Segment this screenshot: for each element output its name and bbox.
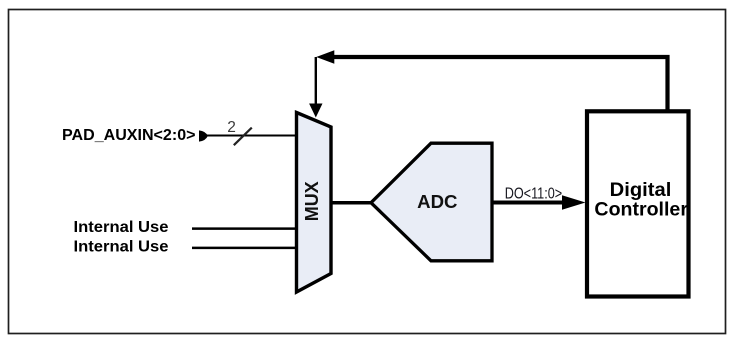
svg-text:Controller: Controller — [594, 200, 688, 221]
svg-text:2: 2 — [227, 119, 236, 136]
svg-text:ADC: ADC — [417, 191, 457, 212]
svg-text:Digital: Digital — [610, 180, 672, 201]
svg-text:Internal Use: Internal Use — [74, 239, 169, 256]
svg-text:Internal Use: Internal Use — [74, 219, 169, 236]
svg-text:DO<11:0>: DO<11:0> — [505, 185, 563, 202]
svg-text:MUX: MUX — [302, 181, 322, 221]
svg-text:PAD_AUXIN<2:0>: PAD_AUXIN<2:0> — [62, 127, 196, 144]
